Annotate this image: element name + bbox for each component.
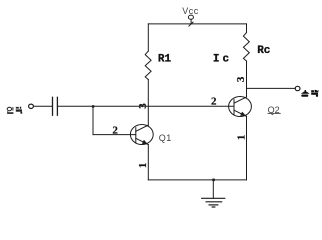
svg-text:3: 3	[137, 103, 149, 109]
svg-text:Ic: Ic	[213, 54, 232, 66]
transistor Q1	[130, 125, 153, 145]
svg-text:1: 1	[137, 163, 149, 169]
svg-text:1: 1	[236, 135, 248, 141]
wire right branch upper	[246, 24, 248, 33]
wire node A down	[92, 106, 94, 134]
svg-text:3: 3	[235, 76, 247, 82]
wire collector node to output	[247, 87, 296, 89]
junction node A	[92, 105, 94, 107]
wire Q2 collector (Rc bottom to Q2)	[246, 61, 248, 97]
label output (Korean 출력) glyph blobs	[301, 90, 319, 97]
input terminal circle	[29, 104, 34, 108]
svg-text:2: 2	[112, 124, 118, 136]
svg-text:Rc: Rc	[257, 45, 270, 57]
wire Q2 emitter	[246, 116, 248, 179]
wire input to capacitor	[34, 105, 53, 107]
svg-text:Q1: Q1	[159, 133, 172, 143]
capacitor C1 left plate	[52, 97, 54, 115]
wire capacitor to Q2 base	[58, 105, 234, 107]
wire bottom rail	[148, 179, 246, 181]
junction ground node	[212, 179, 215, 182]
label input (Korean 입력) glyph blobs	[7, 107, 22, 114]
underline under Q2 label	[268, 113, 280, 115]
resistor Rc	[243, 33, 249, 61]
svg-text:Vcc: Vcc	[182, 6, 199, 16]
output terminal circle	[295, 86, 300, 90]
wire left branch upper	[147, 24, 149, 51]
svg-text:R1: R1	[158, 54, 172, 66]
wire Q1 collector (R1 bottom to Q1)	[147, 80, 149, 126]
ground	[202, 180, 225, 207]
wire Q1 emitter	[147, 145, 149, 180]
resistor R1	[145, 51, 151, 79]
svg-text:2: 2	[211, 96, 217, 108]
power symbol Vcc	[188, 15, 193, 26]
capacitor C1 right plate	[56, 97, 58, 115]
transistor Q2	[229, 97, 252, 117]
wire to Q1 base	[93, 134, 136, 136]
wire top Vcc rail	[148, 23, 246, 25]
